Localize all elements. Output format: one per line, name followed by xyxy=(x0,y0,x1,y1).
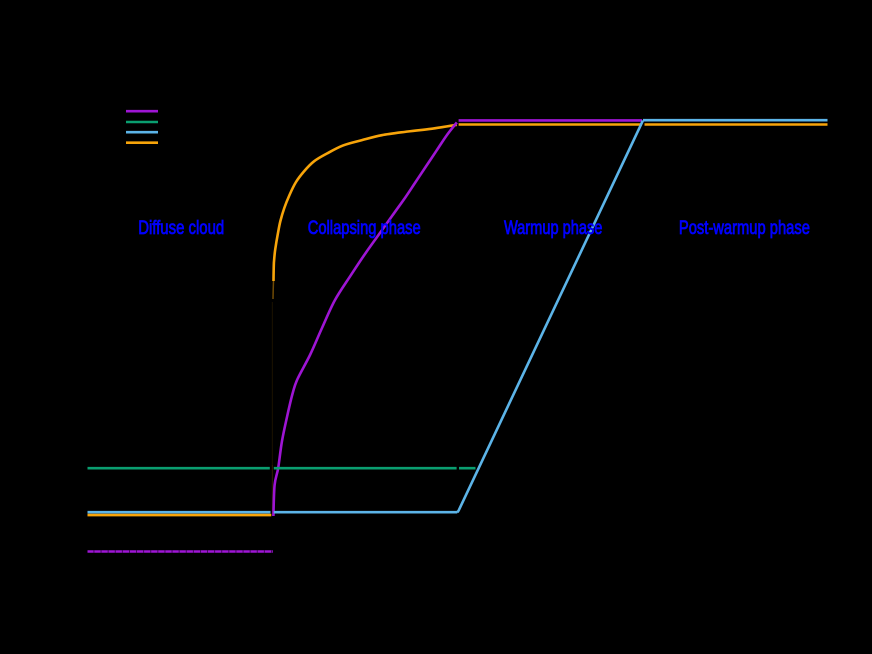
sky blue bottom horizontal segment 2 (collapsing phase) xyxy=(274,511,457,514)
orange dust temperature bottom horizontal (diffuse cloud) xyxy=(88,514,272,517)
svg-text:Post-warmup phase: Post-warmup phase xyxy=(679,218,810,239)
green Av horizontal line segment 2 (collapsing phase) xyxy=(274,467,457,470)
green Av short dash segment 3 (warmup phase) xyxy=(459,467,476,470)
magenta top horizontal (warmup phase) xyxy=(459,119,642,122)
svg-text:Collapsing phase: Collapsing phase xyxy=(308,218,421,239)
sky blue top horizontal (post-warmup phase) xyxy=(643,119,828,122)
orange top horizontal (post-warmup phase) xyxy=(645,123,828,126)
green Av horizontal line segment 1 (diffuse cloud) xyxy=(88,467,270,470)
orange top horizontal (warmup phase) xyxy=(459,123,642,126)
sky blue bottom horizontal segment 1 (diffuse cloud) xyxy=(88,511,271,514)
sky blue diagonal (warmup phase) xyxy=(457,121,643,513)
magenta dashed bottom line base (diffuse cloud) xyxy=(88,550,273,553)
legend line dust temperature (orange) xyxy=(126,141,158,144)
orange fading tail of curve xyxy=(272,281,275,299)
svg-text:Diffuse cloud: Diffuse cloud xyxy=(138,218,224,239)
magenta dashed bottom line gap ticks (diffuse cloud) xyxy=(88,550,273,553)
svg-text:Warmup phase: Warmup phase xyxy=(504,218,603,239)
orange faint vertical jump at phase boundary (upper) xyxy=(271,302,273,465)
legend line density (purple) xyxy=(126,110,158,113)
legend line Av (green) xyxy=(126,121,158,124)
orange dust temperature rising curve (collapsing phase) xyxy=(274,125,457,281)
orange faint vertical jump at phase boundary (lower) xyxy=(271,465,273,513)
magenta density rising curve (collapsing phase) xyxy=(273,123,456,517)
legend line gas temperature (sky blue) xyxy=(126,131,158,134)
